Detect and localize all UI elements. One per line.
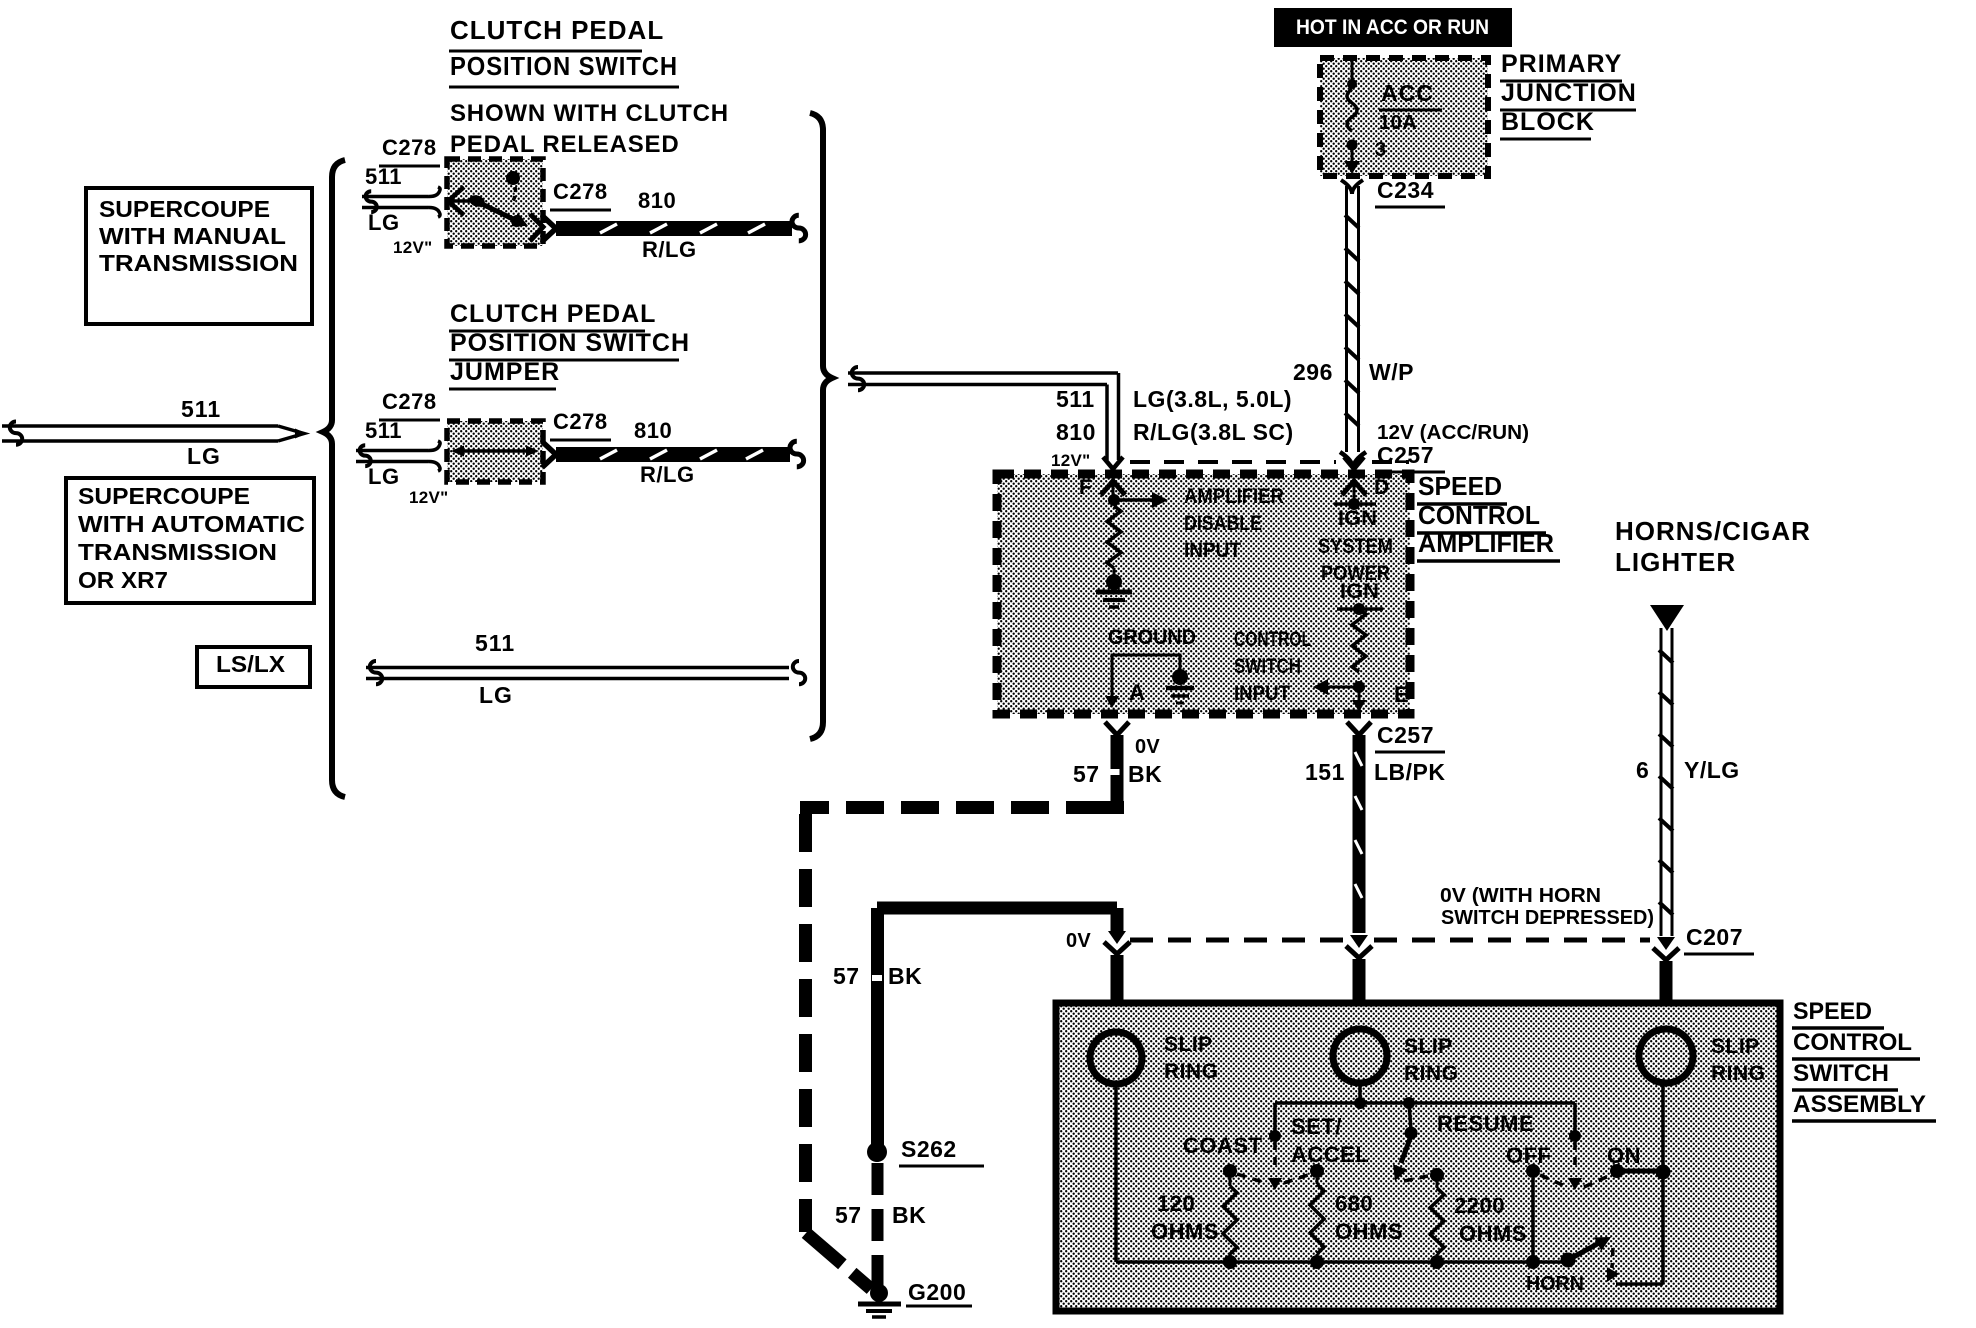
svg-text:SET/: SET/ [1291,1114,1342,1139]
RESUME switch [1393,1103,1534,1181]
label SPEED CONTROL AMPLIFIER [1417,471,1560,561]
svg-text:LG: LG [479,682,513,708]
svg-text:Y/LG: Y/LG [1684,757,1740,783]
svg-text:C234: C234 [1377,177,1434,203]
svg-text:HORNS/CIGAR: HORNS/CIGAR [1615,516,1811,546]
svg-text:ACCEL: ACCEL [1291,1142,1369,1167]
svg-text:OHMS: OHMS [1335,1219,1403,1244]
svg-text:GROUND: GROUND [1108,626,1196,649]
svg-text:R/LG: R/LG [640,462,695,487]
svg-text:OHMS: OHMS [1151,1219,1219,1244]
svg-text:S262: S262 [901,1136,957,1162]
svg-text:DISABLE: DISABLE [1184,512,1262,535]
svg-text:SLIP: SLIP [1164,1033,1213,1056]
wire 511 LG into jumper [356,389,449,507]
svg-text:LG: LG [368,210,400,235]
svg-text:G200: G200 [908,1279,966,1305]
svg-text:SWITCH: SWITCH [1234,655,1301,678]
connector C207 [1653,924,1754,1028]
svg-text:810: 810 [634,418,672,443]
HORN switch [1526,1237,1619,1295]
svg-text:W/P: W/P [1369,359,1414,385]
primary junction block with fuse ACC 10A [1320,58,1488,176]
wire 511/810 to amplifier disable input [848,367,1294,470]
svg-text:296: 296 [1293,359,1333,385]
svg-text:HOT IN ACC OR RUN: HOT IN ACC OR RUN [1296,16,1489,39]
switch contact rail from slip ring 2 [1275,1083,1575,1109]
IGN / control switch input with resistor, pin E [1234,580,1409,712]
svg-text:TRANSMISSION: TRANSMISSION [78,539,277,565]
svg-text:RESUME: RESUME [1437,1111,1534,1136]
svg-text:SYSTEM: SYSTEM [1318,535,1393,558]
wire 511 LG from left [2,396,307,469]
svg-text:BK: BK [1128,761,1162,787]
wire 296 W/P [1293,186,1414,452]
svg-text:BK: BK [892,1202,926,1228]
brace left (options bracket) [323,160,345,797]
svg-text:SPEED: SPEED [1793,998,1872,1025]
bottom rail and slip ring 1 leg [1116,1084,1570,1269]
slip ring 2 [1333,1029,1459,1085]
svg-text:12V": 12V" [393,238,433,257]
svg-text:6: 6 [1636,757,1649,783]
dashed wire 57 BK to G200 [800,808,1104,1290]
svg-text:810: 810 [638,188,676,213]
resistor 680 OHMS [1310,1164,1403,1262]
svg-text:SPEED: SPEED [1418,471,1502,501]
pin D / IGN system power [1130,457,1409,585]
amplifier ground and pin A [1105,626,1196,708]
pin F / amplifier disable input with resistor and ground [1079,457,1284,607]
svg-text:511: 511 [181,396,221,422]
slip ring 3 [1639,1029,1766,1085]
label HOT IN ACC OR RUN [1274,8,1512,47]
wire 151 LB/PK from pin E [1305,722,1446,1028]
slip ring 3 leg and ON/HORN wiring [1616,1083,1663,1284]
svg-text:57: 57 [833,963,860,989]
svg-text:CLUTCH PEDAL: CLUTCH PEDAL [450,300,656,328]
connector C234 [1341,177,1445,207]
svg-text:3: 3 [1375,139,1387,161]
svg-text:57: 57 [1073,761,1100,787]
wire 810 R/LG from clutch switch [542,179,806,262]
title CLUTCH PEDAL POSITION SWITCH JUMPER [449,300,690,389]
wire 57 BK from pin A [1073,722,1162,814]
svg-text:POSITION SWITCH: POSITION SWITCH [450,329,690,357]
svg-text:AMPLIFIER: AMPLIFIER [1418,528,1554,558]
svg-text:SUPERCOUPE: SUPERCOUPE [78,483,250,509]
svg-text:C257: C257 [1377,722,1434,748]
svg-text:LG(3.8L, 5.0L): LG(3.8L, 5.0L) [1133,386,1292,412]
svg-text:JUNCTION: JUNCTION [1501,79,1637,107]
svg-text:SWITCH DEPRESSED): SWITCH DEPRESSED) [1441,907,1654,929]
svg-text:0V (WITH HORN: 0V (WITH HORN [1440,885,1601,907]
SET/ACCEL switch [1268,1103,1369,1190]
svg-text:C278: C278 [553,409,608,434]
svg-text:12V": 12V" [409,488,449,507]
resistor 2200 OHMS [1430,1168,1527,1262]
svg-text:C278: C278 [382,389,437,414]
svg-text:F: F [1079,476,1092,499]
svg-text:LS/LX: LS/LX [216,651,286,677]
svg-text:INPUT: INPUT [1184,539,1241,562]
svg-text:OHMS: OHMS [1459,1221,1527,1246]
svg-text:PEDAL RELEASED: PEDAL RELEASED [450,131,679,158]
svg-text:TRANSMISSION: TRANSMISSION [99,250,298,276]
splice S262 [867,1136,984,1166]
svg-text:12V (ACC/RUN): 12V (ACC/RUN) [1377,422,1529,444]
svg-text:0V: 0V [1135,736,1160,758]
dashed wire 57 BK below S262 [835,1163,926,1288]
resistor 120 OHMS [1151,1178,1237,1262]
svg-text:SLIP: SLIP [1404,1035,1453,1058]
connector C257 (pin D) [1340,422,1529,472]
svg-text:10A: 10A [1379,112,1417,134]
svg-text:IGN: IGN [1340,580,1379,603]
label SPEED CONTROL SWITCH ASSEMBLY [1792,998,1936,1121]
svg-text:BLOCK: BLOCK [1501,108,1595,136]
box SUPERCOUPE WITH AUTOMATIC TRANSMISSION OR XR7 [66,478,314,603]
svg-text:CONTROL: CONTROL [1418,500,1540,530]
svg-text:LG: LG [368,464,400,489]
svg-text:0V: 0V [1066,930,1091,952]
note SHOWN WITH CLUTCH PEDAL RELEASED [450,100,729,158]
svg-text:WITH AUTOMATIC: WITH AUTOMATIC [78,511,305,537]
svg-text:511: 511 [1056,386,1095,412]
svg-text:CONTROL: CONTROL [1234,628,1311,651]
svg-text:SLIP: SLIP [1711,1035,1760,1058]
svg-text:C278: C278 [553,179,608,204]
speed control amplifier box [997,474,1410,714]
box SUPERCOUPE WITH MANUAL TRANSMISSION [86,188,312,324]
svg-text:ACC: ACC [1381,80,1434,106]
ON contact [1568,1103,1671,1190]
svg-text:D: D [1374,476,1390,499]
svg-text:2200: 2200 [1454,1193,1505,1218]
svg-text:CLUTCH PEDAL: CLUTCH PEDAL [450,15,664,45]
svg-text:BK: BK [888,963,922,989]
OFF contact [1506,1143,1611,1262]
svg-text:AMPLIFIER: AMPLIFIER [1184,485,1284,508]
svg-text:C257: C257 [1377,442,1434,468]
svg-text:LB/PK: LB/PK [1374,759,1446,785]
svg-text:RING: RING [1404,1062,1459,1085]
speed control switch assembly box [1056,1003,1780,1311]
box LS/LX [197,647,310,687]
clutch pedal position switch jumper [447,421,543,482]
svg-text:RING: RING [1711,1062,1766,1085]
wire 57 BK to splice S262 [833,908,1117,1145]
svg-text:511: 511 [475,630,515,656]
svg-text:C278: C278 [382,135,437,160]
feed from horns/cigar lighter, wire 6 Y/LG [1615,516,1811,936]
svg-text:57: 57 [835,1202,862,1228]
wire 810 R/LG from jumper [542,409,804,487]
wire 511 LG for LS/LX [366,630,805,708]
ground G200 [858,1279,972,1317]
svg-text:R/LG(3.8L SC): R/LG(3.8L SC) [1133,419,1294,445]
svg-text:A: A [1129,680,1145,705]
svg-text:511: 511 [365,164,402,189]
title CLUTCH PEDAL POSITION SWITCH [449,15,679,87]
svg-text:COAST: COAST [1183,1133,1263,1158]
slip ring 1 [1090,1032,1219,1084]
label PRIMARY JUNCTION BLOCK [1500,50,1637,139]
svg-text:JUMPER: JUMPER [450,358,560,386]
svg-text:OR XR7: OR XR7 [78,567,168,593]
clutch pedal position switch (shown released) [447,159,543,246]
svg-text:C207: C207 [1686,924,1743,950]
0V connector (slip ring 1 feed) [1066,908,1130,1030]
svg-text:680: 680 [1335,1191,1373,1216]
svg-text:810: 810 [1056,419,1096,445]
svg-text:12V": 12V" [1051,451,1091,470]
svg-text:OFF: OFF [1506,1143,1552,1168]
svg-text:SHOWN WITH CLUTCH: SHOWN WITH CLUTCH [450,100,729,127]
svg-text:POSITION SWITCH: POSITION SWITCH [450,51,678,81]
svg-text:PRIMARY: PRIMARY [1501,50,1622,78]
note 0V (WITH HORN SWITCH DEPRESSED) [1440,885,1654,929]
svg-text:HORN: HORN [1526,1273,1584,1295]
svg-text:INPUT: INPUT [1234,682,1290,705]
brace right (options bracket) [810,113,832,739]
svg-text:IGN: IGN [1338,507,1377,530]
svg-text:LG: LG [187,443,221,469]
svg-text:120: 120 [1157,1191,1195,1216]
svg-text:RING: RING [1164,1060,1219,1083]
svg-text:511: 511 [365,418,402,443]
svg-text:CONTROL: CONTROL [1793,1029,1912,1056]
svg-text:LIGHTER: LIGHTER [1615,547,1736,577]
svg-text:ON: ON [1607,1143,1641,1168]
wire 511 LG into clutch switch [362,135,440,257]
svg-text:ASSEMBLY: ASSEMBLY [1793,1091,1926,1118]
COAST contact [1183,1133,1311,1183]
svg-text:WITH MANUAL: WITH MANUAL [99,223,286,249]
svg-text:E: E [1394,682,1409,707]
svg-text:SWITCH: SWITCH [1793,1060,1889,1087]
0V dashed line (horn ground path) [1130,938,1650,943]
svg-text:R/LG: R/LG [642,237,697,262]
svg-text:151: 151 [1305,759,1345,785]
svg-text:SUPERCOUPE: SUPERCOUPE [99,196,270,222]
